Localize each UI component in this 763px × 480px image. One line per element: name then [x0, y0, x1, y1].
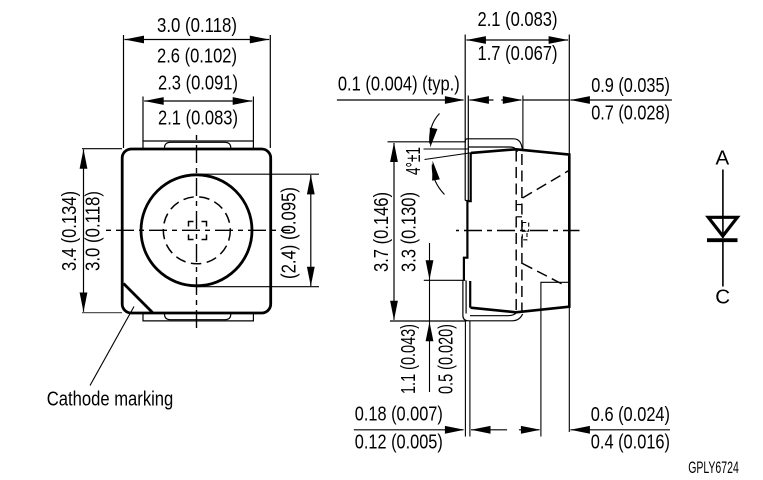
svg-text:2.3 (0.091): 2.3 (0.091) — [158, 71, 238, 94]
svg-text:0.5 (0.020): 0.5 (0.020) — [435, 324, 458, 394]
dim 3.7/3.3 extension top — [388, 141, 467, 143]
dim 0.1 opposing arrow — [469, 96, 493, 104]
top lead outer line — [465, 139, 522, 151]
wire anode — [722, 170, 724, 239]
svg-text:A: A — [715, 147, 729, 170]
svg-text:0.9 (0.035): 0.9 (0.035) — [591, 74, 670, 97]
hidden die step lower — [516, 216, 522, 218]
lens circle — [141, 175, 252, 286]
dim 2.1/1.7 dimension line — [466, 36, 568, 44]
dim (2.4) extension line top — [197, 173, 320, 175]
cathode marking leader line — [90, 307, 134, 386]
svg-text:1.7 (0.067): 1.7 (0.067) — [478, 42, 558, 65]
svg-text:(2.4) (0.095): (2.4) (0.095) — [278, 187, 301, 279]
hidden reflector diagonal lower — [523, 264, 567, 287]
wire cathode — [722, 242, 724, 287]
svg-text:2.1 (0.083): 2.1 (0.083) — [478, 8, 558, 31]
svg-text:C: C — [715, 285, 730, 308]
side view body outline — [471, 149, 570, 312]
side view left edge upper — [464, 153, 471, 281]
inner dashed circle — [163, 197, 230, 264]
dim 1.1/0.5 reference line — [424, 279, 466, 281]
svg-text:0.1 (0.004) (typ.): 0.1 (0.004) (typ.) — [338, 73, 460, 96]
top tab outline — [143, 141, 253, 149]
cathode marking chamfer — [124, 284, 153, 313]
svg-text:2.6 (0.102): 2.6 (0.102) — [157, 45, 237, 68]
svg-text:0.7 (0.028): 0.7 (0.028) — [591, 102, 670, 125]
hidden die step upper — [516, 204, 522, 206]
side view centerline — [456, 230, 580, 232]
svg-text:3.4 (0.134): 3.4 (0.134) — [58, 191, 81, 271]
dim (2.4) extension line bottom — [197, 286, 320, 288]
vertical centerline top view — [196, 132, 198, 330]
dim 2.3/2.1 dimension line — [144, 97, 252, 105]
svg-text:4°±1: 4°±1 — [402, 147, 425, 175]
svg-text:Cathode marking: Cathode marking — [47, 388, 174, 411]
diode triangle — [708, 217, 737, 236]
solder area box bottom right — [541, 282, 569, 308]
dim 3.4/3.0 dimension line — [80, 149, 88, 312]
package outline top view — [122, 149, 271, 313]
bottom dim second arrow — [519, 426, 541, 434]
dim 3.0/2.6 extension line left — [123, 35, 125, 148]
bottom lead inner vertical — [465, 281, 467, 314]
dim 0.18 extension pair right — [469, 321, 471, 437]
svg-text:3.3 (0.130): 3.3 (0.130) — [398, 192, 421, 272]
top tab inner — [165, 142, 231, 149]
svg-text:0.12 (0.005): 0.12 (0.005) — [355, 431, 443, 454]
dim 0.1 second arrow pair — [501, 96, 522, 104]
svg-text:GPLY6724: GPLY6724 — [688, 459, 739, 477]
dim 3.0/2.6 dimension line — [125, 36, 270, 44]
hidden edge vertical B — [521, 154, 523, 312]
dim 3.7/3.3 dimension line — [390, 143, 398, 321]
connector line to right extension — [523, 99, 569, 101]
hidden die box upper — [522, 223, 528, 232]
svg-text:3.0 (0.118): 3.0 (0.118) — [157, 14, 237, 37]
top lead hook — [465, 200, 468, 202]
angle arc lower with arrow — [429, 160, 445, 194]
svg-text:1.1 (0.043): 1.1 (0.043) — [397, 324, 420, 394]
horizontal centerline top view — [105, 229, 290, 231]
hidden reflector diagonal upper — [523, 171, 569, 198]
bottom lead outer line — [463, 281, 523, 321]
dim 0.6 extension right — [568, 307, 570, 432]
hidden die box lower — [522, 231, 527, 240]
bottom tab inner — [165, 313, 231, 320]
svg-text:3.0 (0.118): 3.0 (0.118) — [82, 191, 105, 271]
dim 3.0/2.6 extension line right — [269, 35, 271, 148]
dim 0.6 extension left — [540, 309, 542, 437]
hidden edge vertical A — [515, 151, 517, 312]
dim 3.7/3.3 extension bottom — [390, 320, 467, 322]
bottom dim opposing arrow — [471, 426, 507, 434]
dim 1.1/0.5 dimension line — [426, 243, 434, 392]
svg-text:0.6 (0.024): 0.6 (0.024) — [591, 403, 670, 426]
svg-text:3.7 (0.146): 3.7 (0.146) — [370, 192, 393, 272]
center square (chip) — [189, 222, 207, 240]
top lead vertical outer — [464, 35, 466, 201]
dim 2.3/2.1 extension line right — [252, 97, 254, 142]
dim 3.4/3.0 extension line bottom — [82, 312, 122, 314]
angle arc upper with arrow — [426, 114, 439, 149]
dim 3.4/3.0 extension line top — [82, 148, 122, 150]
dim 0.1 leader with arrow — [337, 96, 465, 104]
angle reference horizontal — [424, 148, 470, 150]
dim 2.3/2.1 extension line left — [142, 97, 144, 142]
top lead inner line — [469, 147, 518, 152]
bottom dim line left with arrow — [354, 426, 465, 434]
angle reference slanted — [425, 153, 472, 160]
dim 2.1/1.7 extension right — [568, 35, 570, 155]
side view left edge lower — [469, 281, 471, 308]
dim 0.18 extension pair left — [464, 321, 466, 437]
bottom lead inner line — [470, 313, 516, 316]
cathode bar — [707, 238, 738, 242]
bottom dim right line with arrow — [570, 426, 670, 434]
svg-text:0.4 (0.016): 0.4 (0.016) — [591, 430, 670, 453]
thin vertical at center top — [522, 96, 524, 151]
dim (2.4) dimension line — [307, 175, 315, 286]
bottom tab outline — [143, 313, 253, 321]
top lead vertical inner — [467, 96, 469, 201]
svg-text:0.18 (0.007): 0.18 (0.007) — [355, 403, 443, 426]
svg-text:2.1 (0.083): 2.1 (0.083) — [158, 106, 238, 129]
dim 0.9/0.7 dimension line with arrow — [570, 96, 672, 104]
